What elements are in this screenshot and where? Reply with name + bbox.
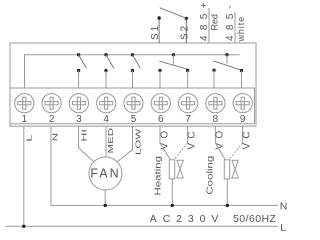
wire contact 8 to terminal 8 <box>213 70 215 88</box>
wire terminal 2 to N line <box>51 126 278 205</box>
wire S1 <box>158 18 160 43</box>
switch LOW arm <box>133 55 141 69</box>
svg-text:485-: 485- <box>225 0 236 41</box>
svg-text:3: 3 <box>76 114 82 125</box>
svg-text:Cooling: Cooling <box>206 156 215 195</box>
node terminal1 on L <box>22 225 25 228</box>
node contact 6 <box>158 69 161 72</box>
node bus tap heating <box>172 53 175 56</box>
svg-text:485+: 485+ <box>199 0 210 41</box>
svg-text:MED: MED <box>107 128 115 154</box>
svg-text:L: L <box>280 222 286 233</box>
wire cooling valve to N line <box>226 179 228 205</box>
svg-text:2: 2 <box>49 114 55 125</box>
svg-text:VC: VC <box>242 127 253 149</box>
node bus tap 5 <box>131 53 134 56</box>
wire terminal 1 to L line <box>23 126 25 226</box>
heating valve body <box>177 160 183 178</box>
wire contact 7 to terminal 7 <box>187 71 189 89</box>
enclosure box <box>10 43 256 126</box>
terminal screw 4 <box>97 94 116 113</box>
svg-text:1: 1 <box>22 114 28 125</box>
svg-text:Red: Red <box>210 14 220 31</box>
wire L supply line <box>5 225 278 227</box>
svg-text:VO: VO <box>215 127 226 150</box>
svg-text:7: 7 <box>185 114 191 125</box>
node contact 9 <box>240 69 243 72</box>
terminal screw 2 <box>42 94 61 113</box>
wire contact 9 to terminal 9 <box>241 71 243 88</box>
wire terminal 7 heating VC <box>187 126 189 143</box>
node bus tap 3 <box>77 53 80 56</box>
svg-text:N: N <box>52 133 60 141</box>
switch S1-S2 arm <box>160 8 187 19</box>
node bus tap 4 <box>104 53 107 56</box>
terminal strip <box>10 88 255 124</box>
svg-text:8: 8 <box>213 114 219 125</box>
wire contact 6 to terminal 6 <box>159 71 161 89</box>
wire RS485+ <box>208 8 210 43</box>
terminal screw 5 <box>124 94 143 113</box>
wire RS485- <box>234 12 236 43</box>
node fan on N <box>104 204 107 207</box>
node S1 <box>157 16 160 19</box>
wire contact 5 to terminal 5 <box>132 71 134 88</box>
svg-text:5: 5 <box>131 114 137 125</box>
terminal screw 8 <box>206 94 225 113</box>
svg-text:HI: HI <box>81 129 89 141</box>
svg-text:VC: VC <box>186 127 197 149</box>
terminal screw 3 <box>69 94 88 113</box>
svg-text:6: 6 <box>158 114 164 125</box>
wire heating VC link dashed <box>174 143 188 160</box>
switch MED arm <box>106 55 114 69</box>
svg-text:VO: VO <box>159 127 170 150</box>
svg-text:S1: S1 <box>150 24 161 40</box>
terminal screw 7 <box>179 94 198 113</box>
cooling valve body <box>232 160 238 178</box>
node contact 4 <box>104 69 107 72</box>
wire contact 3 to terminal 3 <box>78 71 80 88</box>
wire heating switch stem <box>172 55 174 65</box>
wire terminal 4 to fan MED <box>105 126 107 157</box>
svg-text:white: white <box>236 16 246 43</box>
node bus tap cooling <box>225 53 228 56</box>
node contact 8 <box>212 69 215 72</box>
svg-text:4: 4 <box>103 114 109 125</box>
svg-text:50/60HZ: 50/60HZ <box>233 213 277 225</box>
wire fan to N line <box>104 190 106 206</box>
heating valve actuator <box>169 160 174 179</box>
switch HI arm <box>79 55 87 69</box>
wire terminal 3 to fan HI <box>79 126 94 162</box>
switch heating lever <box>159 61 187 69</box>
svg-text:9: 9 <box>240 114 246 125</box>
node contact 7 <box>186 69 189 72</box>
wire heating VO link <box>160 143 170 160</box>
svg-text:L: L <box>26 134 34 141</box>
node S2 <box>185 17 188 20</box>
svg-text:Heating: Heating <box>154 156 163 196</box>
node contact 5 <box>131 69 134 72</box>
wire cooling switch stem <box>226 55 228 64</box>
wire terminal 8 cooling VO <box>214 126 216 143</box>
wire terminal 5 to fan LOW <box>117 126 133 162</box>
terminal screw 9 <box>233 94 252 113</box>
switch cooling lever <box>213 61 241 70</box>
wire S2 <box>185 18 187 43</box>
wire cooling VO link <box>215 143 225 160</box>
wire contact 4 to terminal 4 <box>105 71 107 88</box>
wire cooling VC link dashed <box>229 143 243 160</box>
svg-text:N: N <box>280 200 288 212</box>
svg-text:S2: S2 <box>180 24 191 40</box>
wire terminal 6 heating VO <box>159 126 161 143</box>
svg-text:FAN: FAN <box>90 167 120 181</box>
terminal screw 1 <box>15 94 34 113</box>
fan motor M1 <box>89 157 122 190</box>
wire live bus from terminal 1 <box>25 55 240 88</box>
svg-text:AC230V: AC230V <box>150 213 225 225</box>
svg-text:LOW: LOW <box>134 128 142 155</box>
cooling valve actuator <box>224 160 229 179</box>
node contact 3 <box>77 69 80 72</box>
node heating on N <box>171 204 174 207</box>
node cooling on N <box>226 204 229 207</box>
wire heating valve to N line <box>171 179 173 205</box>
wire terminal 9 cooling VC <box>242 126 244 143</box>
terminal screw 6 <box>151 94 170 113</box>
